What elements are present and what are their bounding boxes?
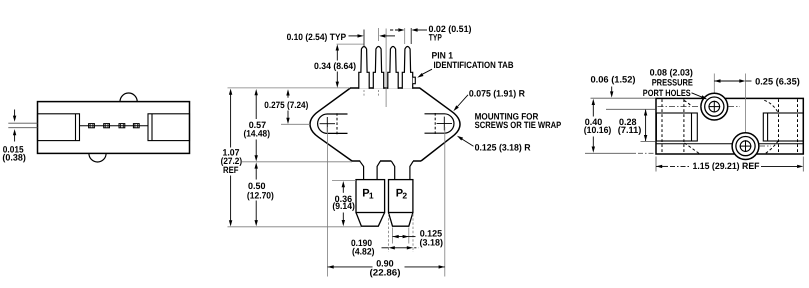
dimension 0.28 (7.11) [645, 109, 647, 141]
svg-text:2: 2 [402, 190, 407, 200]
svg-text:(4.82): (4.82) [352, 246, 375, 256]
svg-text:0.34 (8.64): 0.34 (8.64) [314, 61, 356, 71]
centerline vertical through bottom hole [745, 74, 747, 133]
right slot center cross [437, 123, 452, 125]
left mounting slot [318, 114, 348, 133]
extension line: slot centerline level [281, 123, 310, 125]
pin 3 centerline [378, 28, 380, 41]
svg-text:0.125 (3.18) R: 0.125 (3.18) R [475, 142, 531, 152]
bottom pressure port hole [732, 133, 759, 160]
dimension 0.25 (6.35) hole offset [714, 79, 720, 82]
pin 4 (leftmost) [359, 47, 369, 89]
port P1 flare and neck [360, 161, 364, 179]
svg-text:PORT HOLES: PORT HOLES [643, 88, 691, 98]
extension lines: P2 cylinder width [388, 214, 390, 252]
package vertical centerline [385, 29, 387, 108]
left view: package body outline (top view) [38, 102, 190, 154]
svg-text:TYP: TYP [429, 32, 442, 42]
dimension 0.015 (0.38) lead thickness arrows [14, 110, 16, 117]
right view: right end cap [763, 113, 803, 141]
dimension 0.90 (22.86) hole spacing [328, 266, 373, 268]
pin 1 (rightmost) with identification tab [402, 47, 412, 89]
svg-text:1.15 (29.21) REF: 1.15 (29.21) REF [693, 161, 760, 171]
svg-text:0.25 (6.35): 0.25 (6.35) [755, 77, 800, 87]
middle view: sensor body outline [310, 88, 460, 161]
svg-text:(14.48): (14.48) [244, 129, 271, 139]
left view: protruding lead (two lines) [8, 122, 37, 124]
dimension 0.57 (14.48) body height [255, 95, 257, 120]
svg-text:0.10 (2.54) TYP: 0.10 (2.54) TYP [287, 32, 347, 42]
extension line: left hole center vertical [327, 127, 329, 277]
extension lines: P2 tip width [392, 228, 394, 244]
right view: hidden edges left end (dashed) [661, 99, 663, 153]
svg-text:0.275 (7.24): 0.275 (7.24) [264, 100, 308, 110]
svg-text:0.50: 0.50 [248, 181, 266, 191]
top pressure port hole [701, 93, 728, 120]
svg-text:PIN 1: PIN 1 [432, 50, 454, 60]
svg-text:0.075 (1.91) R: 0.075 (1.91) R [469, 89, 525, 99]
dimension 0.50 (12.70) port length [255, 168, 257, 180]
right view: left end cap [656, 113, 697, 141]
right slot hidden edge (dashed) [434, 113, 436, 134]
svg-text:PRESSURE: PRESSURE [652, 78, 693, 88]
svg-text:0.06 (1.52): 0.06 (1.52) [591, 74, 636, 84]
extension line: body bottom level [242, 161, 352, 163]
right view: hidden corner arcs (dashed) [684, 101, 692, 107]
left view: right end cap [148, 114, 190, 141]
right view: inner shoulder line [656, 143, 803, 145]
dash-dot centerline of bottom hole [759, 145, 771, 147]
left view: pressure port bump (top edge) [120, 93, 137, 102]
svg-text:(9.14): (9.14) [332, 201, 355, 211]
svg-text:1: 1 [369, 190, 374, 200]
svg-text:REF: REF [223, 165, 239, 175]
dimension 0.36 (9.14) [342, 186, 344, 193]
port P2 flare and neck [391, 161, 394, 179]
middle view: body bottom edge segments [352, 160, 360, 162]
pin 4 centerline [363, 30, 365, 48]
extension line: pin tip level [337, 43, 365, 45]
left view: four lead cross-sections [89, 124, 95, 128]
port P2 taper tip [389, 213, 413, 227]
svg-text:(10.16): (10.16) [584, 125, 612, 135]
centerline vertical through top hole [713, 74, 715, 94]
dimension 0.125 (3.18) P2 tip width [393, 236, 409, 238]
dimension 0.02 (0.51) TYP pin width [390, 29, 398, 31]
svg-text:SCREWS OR TIE WRAP: SCREWS OR TIE WRAP [475, 120, 562, 130]
left slot hidden edge (dashed) [336, 113, 338, 134]
pin 1 width extension lines [404, 28, 406, 44]
dimension 0.40 (10.16) overall depth [592, 104, 594, 117]
dimension 1.15 (29.21) REF overall length [655, 157, 657, 172]
svg-text:(0.38): (0.38) [2, 153, 26, 163]
svg-text:(22.86): (22.86) [370, 267, 401, 277]
left view: left end cap [38, 114, 80, 141]
left view: lead frame center line [80, 125, 148, 127]
right view: hidden edges right end (dashed) [778, 99, 780, 153]
svg-text:0.08 (2.03): 0.08 (2.03) [650, 68, 693, 78]
port P2 cylinder [389, 180, 413, 213]
dimension 1.07 (27.2) REF overall height [230, 94, 232, 148]
extension line: P1 cylinder top [332, 180, 356, 182]
svg-text:(3.18): (3.18) [420, 237, 444, 247]
extension line: right hole center vertical [444, 127, 446, 277]
svg-text:IDENTIFICATION TAB: IDENTIFICATION TAB [434, 60, 514, 70]
right view: package body outline [656, 98, 803, 154]
port P1 taper tip [356, 213, 385, 227]
extension line: body top level [228, 87, 351, 89]
pin 3 [373, 47, 383, 89]
svg-text:(12.70): (12.70) [247, 191, 274, 201]
svg-text:(7.11): (7.11) [618, 125, 642, 135]
dash-dot centerline of top hole [658, 106, 702, 108]
left slot center cross [320, 123, 335, 125]
right mounting slot [425, 114, 454, 133]
extension line: port tip level [228, 226, 362, 228]
left view: pressure port bump (bottom edge) [89, 153, 106, 162]
pin 2 [388, 47, 398, 89]
port P1 cylinder [356, 180, 385, 213]
